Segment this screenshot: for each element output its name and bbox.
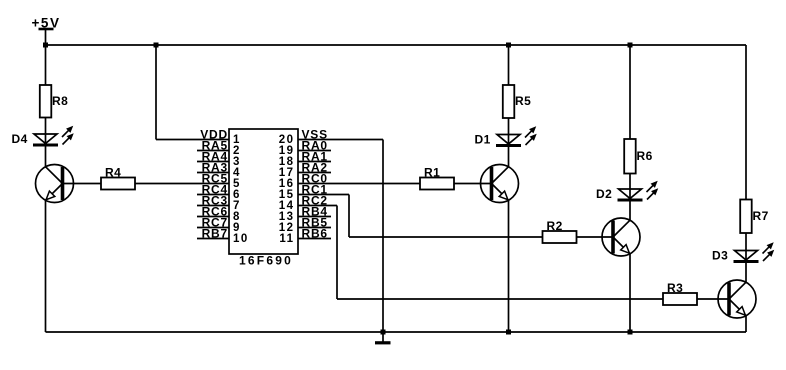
transistor Q2 [602, 218, 640, 256]
svg-text:RB6: RB6 [302, 227, 328, 241]
junction [628, 330, 633, 335]
resistor R7 [740, 200, 769, 234]
pin 7 RC3 [197, 194, 241, 212]
pin 8 RC6 [197, 205, 241, 223]
transistor Q4 [36, 165, 74, 203]
svg-text:D4: D4 [12, 132, 28, 146]
pin 19 RA0 [279, 139, 331, 157]
pin 18 RA1 [279, 150, 331, 168]
junction [154, 43, 159, 48]
wire: RC1 pin 15 to R2 [298, 194, 349, 196]
resistor R2 [543, 219, 577, 243]
svg-text:11: 11 [279, 233, 294, 245]
ground [375, 332, 391, 344]
svg-text:R1: R1 [424, 166, 440, 180]
resistor R4 [101, 166, 135, 190]
svg-text:R3: R3 [667, 281, 683, 295]
pin 15 RC1 [279, 183, 328, 201]
resistor R1 [420, 166, 454, 190]
svg-text:R8: R8 [52, 94, 68, 108]
pin 12 RB5 [279, 216, 331, 234]
pin 17 RA2 [279, 161, 331, 179]
junction [506, 330, 511, 335]
svg-text:D2: D2 [596, 187, 612, 201]
resistor R3 [663, 281, 697, 305]
pin 9 RC7 [197, 216, 241, 234]
pin 16 RC0 [279, 172, 328, 190]
power +5V [32, 15, 61, 30]
resistor R5 [503, 85, 532, 118]
svg-text:RB7: RB7 [202, 227, 228, 241]
resistor R6 [624, 139, 653, 174]
LED D4 [12, 126, 74, 146]
junction [506, 43, 511, 48]
pin 13 RB4 [279, 205, 331, 223]
wire: RC2 pin 14 to R3 [298, 205, 337, 207]
wire: +5V top rail [46, 44, 747, 46]
pin 10 RB7 [197, 227, 249, 245]
wire: Q4 base to R4 [63, 183, 102, 185]
svg-text:R2: R2 [547, 219, 563, 233]
wire: R3 to Q3 base [697, 298, 730, 300]
pin 14 RC2 [279, 194, 328, 212]
pin 11 RB6 [279, 227, 331, 245]
pin 2 RA5 [197, 139, 241, 157]
wire: R2 to Q2 base [577, 236, 614, 238]
wire: R5 column [508, 45, 510, 85]
resistor R8 [40, 85, 69, 118]
pin 1 VDD [200, 128, 241, 146]
pin 4 RA3 [197, 161, 241, 179]
junction [43, 43, 48, 48]
svg-text:10: 10 [233, 233, 249, 245]
pin 5 RC5 [202, 172, 241, 190]
wire: R6 column [629, 45, 631, 139]
svg-text:D3: D3 [712, 249, 728, 263]
LED D2 [596, 181, 658, 201]
svg-text:D1: D1 [475, 133, 491, 147]
op-amp U1 16F690 body [229, 129, 298, 268]
pin 20 VSS [279, 128, 328, 146]
wire: R4 to RC5 pin 5 [135, 183, 230, 185]
wire: R1 to Q1 base [454, 183, 492, 185]
svg-text:16F690: 16F690 [239, 254, 293, 268]
junction [381, 330, 386, 335]
wire: VDD supply drop [155, 45, 157, 140]
svg-text:R7: R7 [753, 209, 769, 223]
junction [628, 43, 633, 48]
pin 6 RC4 [197, 183, 241, 201]
svg-text:R4: R4 [105, 166, 121, 180]
wire: R7 column [745, 45, 747, 200]
transistor Q3 [718, 280, 756, 318]
svg-text:R5: R5 [515, 94, 531, 108]
LED D1 [475, 127, 537, 147]
wire: VSS to ground [298, 139, 383, 141]
pin 3 RA4 [197, 150, 241, 168]
svg-text:R6: R6 [637, 149, 653, 163]
wire: RC0 pin 16 to R1 [298, 183, 420, 185]
transistor Q1 [481, 165, 519, 203]
wire: left column vertical [45, 29, 47, 85]
LED D3 [712, 243, 774, 263]
wire: bottom rail [46, 331, 747, 333]
